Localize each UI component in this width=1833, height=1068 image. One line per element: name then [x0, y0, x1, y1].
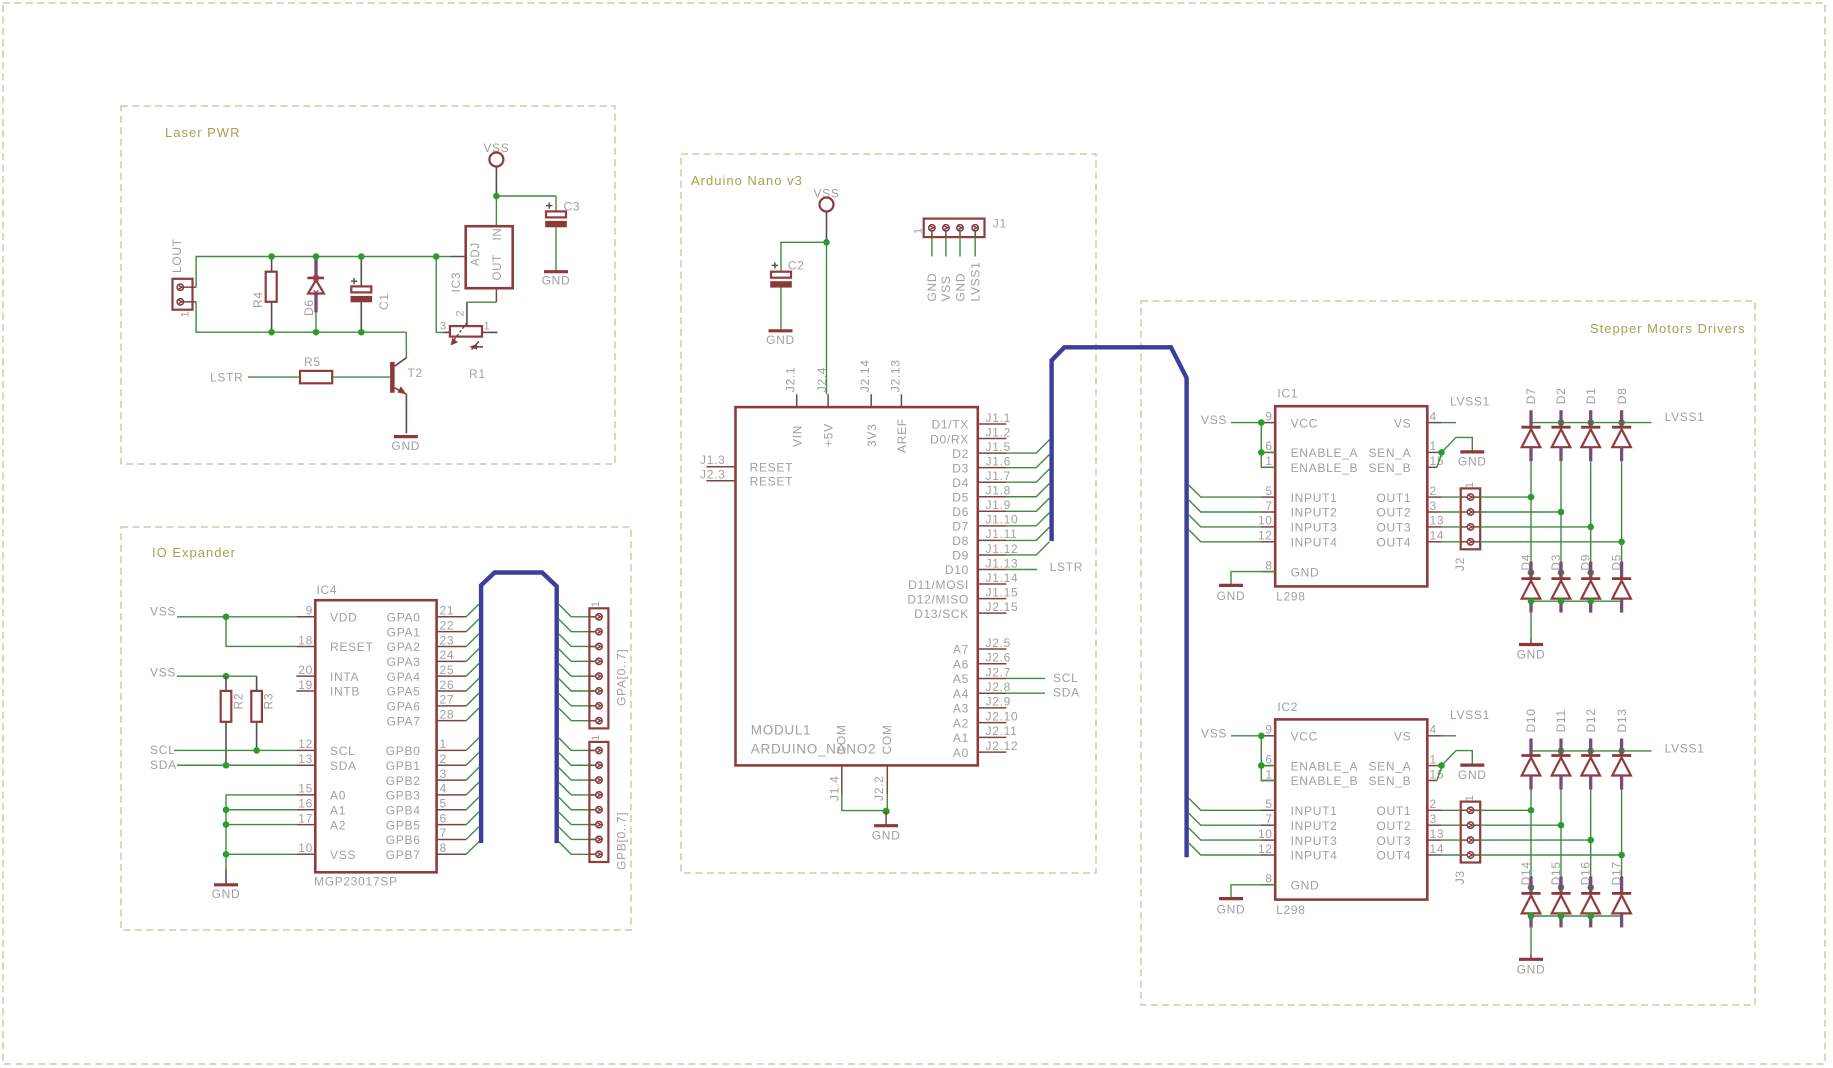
svg-text:OUT2: OUT2: [1376, 819, 1411, 833]
wire T2 emitter to ground: [405, 394, 407, 433]
svg-text:RESET: RESET: [750, 475, 794, 489]
svg-text:ENABLE_B: ENABLE_B: [1291, 461, 1359, 475]
svg-text:2: 2: [455, 310, 467, 317]
svg-text:13: 13: [298, 752, 313, 766]
wire SCL: [174, 749, 296, 751]
svg-text:14: 14: [1430, 529, 1445, 543]
wires J1 pins down: [932, 231, 975, 257]
wire SDA from A4: [1006, 692, 1045, 694]
svg-text:10: 10: [1258, 514, 1273, 528]
svg-text:D0/RX: D0/RX: [930, 432, 969, 446]
wires J2 to diodes: [1480, 497, 1621, 542]
svg-text:1: 1: [1430, 752, 1437, 766]
svg-text:OUT1: OUT1: [1376, 804, 1411, 818]
svg-text:D1: D1: [1584, 387, 1598, 404]
junction COM ground: [883, 808, 890, 815]
MODUL1 right pin stubs D group: [978, 424, 1007, 613]
svg-text:J2.1: J2.1: [784, 367, 798, 392]
svg-text:C1: C1: [377, 293, 391, 310]
svg-text:GPA0: GPA0: [387, 611, 421, 625]
wires J3 to diodes: [1480, 810, 1621, 855]
svg-text:INPUT2: INPUT2: [1291, 506, 1338, 520]
section box Stepper Motors Drivers: [1141, 301, 1755, 1005]
svg-text:2: 2: [1430, 797, 1437, 811]
svg-text:GPA5: GPA5: [387, 685, 421, 699]
svg-text:A3: A3: [953, 702, 969, 716]
svg-text:1: 1: [1464, 481, 1476, 488]
svg-text:3: 3: [1430, 499, 1437, 513]
svg-text:OUT4: OUT4: [1376, 849, 1411, 863]
junction SCL R3: [253, 747, 260, 754]
svg-text:GND: GND: [925, 273, 939, 302]
wire LVSS1 rail (IC1): [1531, 422, 1652, 424]
svg-text:D6: D6: [302, 299, 316, 316]
svg-text:R2: R2: [232, 693, 246, 710]
svg-text:OUT3: OUT3: [1376, 521, 1411, 535]
wire R5 to T2 base: [332, 376, 390, 378]
junctions OUT nets (IC1): [1528, 494, 1625, 545]
svg-text:J1.15: J1.15: [986, 585, 1019, 599]
IC4 right pin names GPB0-GPB7: [386, 744, 421, 862]
diode D2: [1551, 410, 1570, 461]
svg-text:GND: GND: [1217, 589, 1246, 603]
svg-text:1: 1: [440, 737, 447, 751]
svg-text:VS: VS: [1394, 416, 1411, 430]
junction D6 top: [313, 253, 320, 260]
wire GND pin to ground (IC2): [1231, 885, 1275, 898]
wire ADJ junction down to R1 pin 3: [436, 257, 443, 333]
resistor R5: [300, 371, 332, 383]
junctions lower diode cathodes (IC2): [1528, 884, 1594, 891]
svg-text:8: 8: [440, 841, 447, 855]
IC4 right pin stubs and numbers 1-8: [437, 737, 467, 855]
svg-text:14: 14: [1430, 842, 1445, 856]
IC2 right pin stubs and numbers: [1427, 723, 1444, 856]
svg-text:J2.5: J2.5: [986, 636, 1011, 650]
IC IC2 body (L298): [1275, 719, 1427, 899]
wires bus to IC2 inputs (diagonals): [1189, 798, 1261, 855]
wire lower diode ground rail (IC2): [1531, 915, 1622, 917]
section box IO Expander: [121, 527, 631, 930]
wire SEN_A SEN_B to ground (IC2): [1442, 751, 1473, 766]
svg-text:3: 3: [440, 321, 447, 333]
diode D8: [1612, 410, 1631, 461]
capacitor C1 plus: [351, 278, 357, 284]
wire rail to ground (IC1): [1530, 613, 1532, 639]
wire VSS to VCC (IC1): [1231, 422, 1261, 424]
diode D11: [1551, 739, 1570, 790]
svg-text:D12: D12: [1584, 708, 1598, 732]
wire lower diode ground rail (IC1): [1531, 600, 1622, 602]
connector J3: [1461, 802, 1481, 863]
wire LVSS1 rail (IC2): [1531, 750, 1652, 752]
svg-text:GPA1: GPA1: [387, 625, 421, 639]
svg-text:8: 8: [1265, 558, 1272, 572]
svg-text:J2.12: J2.12: [986, 739, 1019, 753]
junction VSS R2: [223, 673, 230, 680]
wires diode anodes to OUT nets (IC1): [1531, 461, 1622, 542]
svg-text:5: 5: [1265, 484, 1272, 498]
MODUL1 top pin labels J2.1 J2.4 J2.14 J2.13: [784, 359, 903, 392]
svg-text:GPA7: GPA7: [387, 714, 421, 728]
svg-text:VSS: VSS: [150, 666, 176, 680]
svg-text:10: 10: [298, 841, 313, 855]
svg-text:GPB[0..7]: GPB[0..7]: [615, 812, 629, 870]
svg-text:ENABLE_A: ENABLE_A: [1291, 759, 1359, 773]
svg-text:1: 1: [484, 320, 491, 332]
svg-text:J2.6: J2.6: [986, 651, 1011, 665]
svg-text:3: 3: [1430, 812, 1437, 826]
wire VSS to C2: [781, 242, 827, 271]
wire VSS to C3: [496, 195, 556, 197]
ground at SEN (IC1): [1460, 450, 1484, 453]
svg-text:GPB4: GPB4: [386, 803, 421, 817]
MODUL1 top pin names VIN +5V 3V3 AREF: [790, 418, 909, 453]
wire VSS to VDD and RESET: [177, 616, 296, 618]
svg-text:IC4: IC4: [317, 583, 338, 597]
svg-text:OUT2: OUT2: [1376, 506, 1411, 520]
svg-text:17: 17: [298, 811, 313, 825]
svg-text:D13/SCK: D13/SCK: [914, 607, 969, 621]
junction ENABLE_A (IC2): [1258, 762, 1265, 769]
svg-text:J2.11: J2.11: [986, 724, 1018, 738]
junction C1 top: [358, 253, 365, 260]
svg-text:T2: T2: [408, 366, 423, 380]
wire GND pin to ground (IC1): [1231, 572, 1275, 585]
svg-text:VCC: VCC: [1291, 416, 1318, 430]
svg-text:GND: GND: [1458, 768, 1487, 782]
svg-text:J2.9: J2.9: [986, 695, 1011, 709]
wire T2 collector: [405, 332, 407, 358]
svg-text:VSS: VSS: [1201, 726, 1227, 740]
svg-text:COM: COM: [880, 724, 894, 754]
wire LOUT to top rail: [196, 257, 436, 288]
svg-text:8: 8: [1265, 872, 1272, 886]
svg-text:7: 7: [440, 826, 447, 840]
svg-text:OUT3: OUT3: [1376, 834, 1411, 848]
svg-text:J2.3: J2.3: [700, 467, 725, 481]
svg-text:2: 2: [1430, 484, 1437, 498]
svg-text:AREF: AREF: [895, 418, 909, 453]
svg-text:VDD: VDD: [330, 611, 357, 625]
junction VCC (IC1): [1258, 419, 1265, 426]
svg-text:+5V: +5V: [822, 423, 836, 447]
wires D2-D9 to bus (diagonals): [1006, 440, 1049, 555]
wire SDA: [177, 764, 296, 766]
svg-text:1: 1: [1464, 794, 1476, 801]
svg-text:INTB: INTB: [330, 685, 360, 699]
svg-text:ENABLE_B: ENABLE_B: [1291, 774, 1359, 788]
svg-text:INTA: INTA: [330, 670, 359, 684]
svg-text:J1.13: J1.13: [986, 556, 1019, 570]
svg-text:INPUT3: INPUT3: [1291, 834, 1338, 848]
wire VSS to +5V pin: [826, 242, 828, 394]
svg-text:J1.12: J1.12: [986, 542, 1019, 556]
svg-text:LVSS1: LVSS1: [1450, 708, 1490, 722]
svg-text:D12/MISO: D12/MISO: [907, 592, 969, 606]
transistor T2: [390, 362, 395, 393]
junction ADJ rail: [433, 253, 440, 260]
module MODUL1 body (Arduino Nano): [736, 407, 978, 765]
svg-text:A2: A2: [330, 818, 346, 832]
svg-text:OUT1: OUT1: [1376, 491, 1411, 505]
svg-text:IC3: IC3: [449, 272, 463, 293]
svg-text:A6: A6: [953, 657, 969, 671]
MODUL1 right pin names A group: [953, 643, 969, 760]
IC2 pin names right: [1368, 730, 1411, 863]
junction VSS VDD: [223, 614, 230, 621]
svg-text:9: 9: [1265, 723, 1272, 737]
svg-text:19: 19: [298, 678, 313, 692]
svg-text:D10: D10: [1524, 708, 1538, 732]
svg-text:27: 27: [440, 693, 455, 707]
junction VSS arduino: [823, 239, 830, 246]
svg-text:J2.15: J2.15: [986, 600, 1019, 614]
svg-text:LVSS1: LVSS1: [1450, 395, 1490, 409]
svg-text:D9: D9: [952, 549, 969, 563]
IC4 left pin stubs and numbers: [296, 604, 315, 855]
capacitor C2 plus: [772, 262, 778, 268]
junction VSS laser: [493, 193, 500, 200]
junctions LVSS1 rail (IC2): [1558, 748, 1625, 755]
svg-text:VSS: VSS: [330, 848, 356, 862]
capacitor C1: [360, 257, 362, 287]
svg-text:1: 1: [1265, 767, 1272, 781]
junction SDA R2: [223, 762, 230, 769]
ground at SEN (IC2): [1460, 763, 1484, 766]
svg-text:LVSS1: LVSS1: [1665, 742, 1705, 756]
svg-text:J1.3: J1.3: [700, 453, 725, 467]
wire rail to ground (IC2): [1530, 927, 1532, 953]
svg-text:21: 21: [440, 604, 455, 618]
svg-text:L298: L298: [1276, 903, 1306, 917]
svg-text:D10: D10: [945, 563, 969, 577]
trimmer R1 wiper: [453, 323, 467, 341]
header GPB[0..7]: [589, 742, 608, 862]
svg-text:VSS: VSS: [939, 275, 953, 301]
svg-text:GPB5: GPB5: [386, 818, 421, 832]
svg-text:5: 5: [1265, 797, 1272, 811]
diode D12: [1581, 739, 1600, 790]
svg-text:INPUT1: INPUT1: [1291, 491, 1338, 505]
diode D4: [1521, 562, 1540, 613]
svg-text:J1: J1: [993, 217, 1007, 231]
svg-text:D3: D3: [952, 461, 969, 475]
svg-text:16: 16: [298, 797, 313, 811]
svg-text:SEN_B: SEN_B: [1368, 774, 1411, 788]
ground below diodes (IC1): [1530, 639, 1532, 645]
svg-text:LSTR: LSTR: [1050, 560, 1083, 574]
diode D9: [1581, 562, 1600, 613]
svg-text:1: 1: [1265, 454, 1272, 468]
IC2 left pin stubs and numbers: [1258, 723, 1275, 886]
diode D16: [1581, 876, 1600, 927]
diode D5: [1612, 562, 1631, 613]
svg-text:J3: J3: [1453, 870, 1467, 884]
capacitor C3 plus: [546, 202, 552, 208]
MODUL1 top pin stubs: [797, 394, 902, 407]
svg-text:J2.8: J2.8: [986, 680, 1011, 694]
svg-text:J1.1: J1.1: [986, 411, 1011, 425]
junction SEN_A (IC2): [1438, 762, 1445, 769]
svg-text:3: 3: [440, 767, 447, 781]
wires IC4 pins to bus (diagonals): [466, 604, 479, 854]
svg-text:J1.8: J1.8: [986, 484, 1011, 498]
junction VSS pin10: [223, 851, 230, 858]
svg-text:OUT4: OUT4: [1376, 536, 1411, 550]
svg-text:D1/TX: D1/TX: [931, 418, 969, 432]
svg-text:15: 15: [298, 782, 313, 796]
svg-text:A4: A4: [953, 687, 969, 701]
svg-text:GND: GND: [1517, 648, 1546, 662]
svg-text:6: 6: [1265, 439, 1272, 453]
net labels GND VSS GND LVSS1 under J1: [925, 262, 982, 302]
svg-text:A7: A7: [953, 643, 969, 657]
svg-text:4: 4: [1430, 409, 1437, 423]
svg-text:SDA: SDA: [1053, 686, 1080, 700]
svg-text:J2.13: J2.13: [888, 359, 902, 392]
wire VSS to IC3 IN: [495, 196, 497, 226]
diode labels D10,D11,D12,D13: [1524, 708, 1629, 732]
svg-text:IN: IN: [492, 228, 504, 241]
svg-text:GPB2: GPB2: [386, 774, 421, 788]
svg-text:6: 6: [440, 811, 447, 825]
svg-text:5: 5: [440, 797, 447, 811]
svg-text:SEN_A: SEN_A: [1368, 446, 1411, 460]
svg-text:GND: GND: [872, 829, 901, 843]
svg-text:GND: GND: [1458, 455, 1487, 469]
MODUL1 right pin stubs A group: [978, 649, 1007, 752]
svg-text:A0: A0: [330, 789, 346, 803]
svg-text:J1.14: J1.14: [986, 571, 1019, 585]
junction VCC (IC2): [1258, 733, 1265, 740]
svg-text:1: 1: [1430, 439, 1437, 453]
svg-text:GPA6: GPA6: [387, 700, 421, 714]
wire LOUT to bottom rail: [196, 302, 406, 332]
IC3 OUT pin stub: [495, 288, 497, 302]
svg-text:1: 1: [180, 311, 192, 318]
svg-text:22: 22: [440, 618, 455, 632]
svg-text:LSTR: LSTR: [210, 371, 243, 385]
junctions ground rail (IC2): [1528, 913, 1594, 920]
svg-text:VSS: VSS: [1201, 413, 1227, 427]
diode labels D14,D15,D16,D17: [1519, 861, 1624, 885]
junctions OUT nets (IC2): [1528, 807, 1625, 858]
svg-text:A2: A2: [953, 716, 969, 730]
wire A0 A1 A2 VSS to ground: [226, 795, 296, 869]
svg-text:J1.11: J1.11: [986, 527, 1018, 541]
resistor R2: [225, 676, 227, 691]
svg-text:D13: D13: [1615, 708, 1629, 732]
wire SEN_A SEN_B to ground (IC1): [1442, 437, 1473, 452]
wire SCL from A5: [1006, 677, 1045, 679]
svg-text:1: 1: [590, 600, 602, 607]
svg-text:R1: R1: [469, 367, 486, 381]
svg-text:GPB7: GPB7: [386, 848, 421, 862]
junction C1 bottom: [358, 329, 365, 336]
svg-text:7: 7: [1265, 812, 1272, 826]
trimmer R1 adjust arrow: [469, 342, 483, 350]
svg-text:GND: GND: [1291, 879, 1320, 893]
diode D10: [1521, 739, 1540, 790]
svg-text:GPA[0..7]: GPA[0..7]: [615, 649, 629, 706]
svg-text:D4: D4: [952, 476, 969, 490]
diode D15: [1551, 876, 1570, 927]
bus GPA/GPB loop: [481, 573, 557, 844]
svg-text:R5: R5: [304, 355, 321, 369]
svg-text:ARDUINO_NANO2: ARDUINO_NANO2: [751, 742, 876, 757]
ground below IC4: [225, 869, 227, 885]
wire VS to LVSS1 (IC2): [1442, 735, 1456, 737]
wire VCC to ENABLE_A ENABLE_B (IC2): [1261, 736, 1275, 781]
svg-text:1: 1: [590, 734, 602, 741]
svg-text:LVSS1: LVSS1: [969, 262, 983, 302]
wire VCC to ENABLE_A ENABLE_B (IC1): [1261, 423, 1275, 468]
svg-text:GPA3: GPA3: [387, 655, 421, 669]
ground below IC1: [1219, 584, 1243, 587]
resistor R3: [256, 676, 258, 691]
connector J2: [1461, 488, 1481, 549]
MODUL1 bottom pin stubs: [841, 765, 843, 794]
svg-text:D2: D2: [1554, 387, 1568, 404]
wire OUT to R1 pin 2: [467, 301, 497, 303]
junctions ground rail (IC1): [1528, 598, 1594, 605]
svg-text:GPB3: GPB3: [386, 789, 421, 803]
junction R4 top: [268, 253, 275, 260]
ground below T2: [394, 435, 418, 438]
svg-text:D2: D2: [952, 447, 969, 461]
svg-text:J1.10: J1.10: [986, 513, 1019, 527]
MODUL1 right pin labels J2 group: [986, 636, 1019, 753]
svg-text:3V3: 3V3: [865, 424, 879, 447]
svg-text:J2.10: J2.10: [986, 709, 1019, 723]
wire VSS to R2 R3: [177, 675, 257, 677]
svg-text:4: 4: [440, 782, 447, 796]
IC IC1 body (L298): [1275, 406, 1427, 586]
svg-text:J2.2: J2.2: [872, 776, 886, 801]
wire VS to LVSS1 (IC1): [1442, 422, 1456, 424]
svg-text:25: 25: [440, 663, 455, 677]
diode D14: [1521, 876, 1540, 927]
IC2 pin names left: [1291, 730, 1359, 893]
svg-text:12: 12: [298, 737, 313, 751]
svg-text:9: 9: [306, 604, 313, 618]
svg-text:R3: R3: [262, 693, 276, 710]
IC1 pin names left: [1291, 416, 1359, 579]
svg-text:ADJ: ADJ: [470, 242, 482, 266]
svg-text:LOUT: LOUT: [170, 238, 184, 273]
IC4 right pin stubs and numbers 21-28: [437, 604, 467, 722]
svg-text:GND: GND: [542, 274, 571, 288]
wires bus to GPB header (diagonals): [559, 738, 596, 854]
wires OUT nets down to lower diodes (IC1): [1531, 497, 1622, 572]
wires IC1 outputs to J2: [1442, 497, 1461, 542]
wires IC2 outputs to J3: [1442, 810, 1461, 855]
svg-text:J2.4: J2.4: [815, 367, 829, 392]
zener diode D6: [314, 257, 317, 278]
svg-text:GND: GND: [953, 273, 967, 302]
svg-text:MODUL1: MODUL1: [751, 723, 811, 738]
svg-text:IC1: IC1: [1277, 387, 1298, 401]
svg-text:D11: D11: [1554, 709, 1568, 732]
svg-text:SCL: SCL: [330, 744, 355, 758]
diode D17: [1612, 876, 1631, 927]
svg-text:IO Expander: IO Expander: [152, 545, 236, 560]
svg-text:26: 26: [440, 678, 455, 692]
capacitor C3: [555, 196, 557, 211]
IC1 left pin stubs and numbers: [1258, 409, 1275, 572]
svg-text:VS: VS: [1394, 730, 1411, 744]
